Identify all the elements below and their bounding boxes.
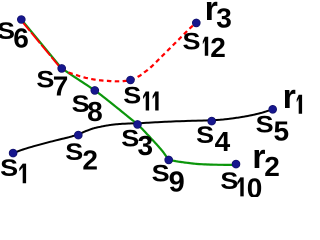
svg-text:0: 0 <box>247 172 263 197</box>
label S2 <box>65 139 98 175</box>
label S5 <box>256 112 289 147</box>
svg-text:S: S <box>0 155 18 182</box>
node s8 <box>91 86 99 94</box>
trajectory r3: red dashed curve s7,s11,s12 <box>62 23 197 81</box>
label S11 <box>123 82 158 110</box>
svg-text:S: S <box>123 82 141 109</box>
node s1 <box>9 149 17 157</box>
svg-text:S: S <box>36 66 54 93</box>
svg-text:2: 2 <box>264 151 280 182</box>
label S12 <box>183 28 226 62</box>
svg-text:S: S <box>183 28 201 55</box>
trajectory r2: green curve s7,s8,s3,s9,s10 <box>62 68 236 164</box>
svg-text:2: 2 <box>82 144 98 175</box>
node s10 <box>232 160 240 168</box>
node s12 <box>192 19 200 27</box>
label S7 <box>36 66 68 101</box>
svg-text:S: S <box>220 168 238 195</box>
svg-text:2: 2 <box>210 32 226 63</box>
svg-text:4: 4 <box>215 126 231 157</box>
svg-text:S: S <box>196 122 214 149</box>
label r2 <box>252 138 280 182</box>
svg-text:3: 3 <box>216 3 232 34</box>
svg-text:r: r <box>283 78 296 116</box>
svg-text:3: 3 <box>138 130 154 161</box>
node s9 <box>165 156 173 164</box>
trajectory r2: green straight segment s6 to s7 <box>21 20 61 69</box>
svg-text:8: 8 <box>87 96 103 127</box>
svg-text:S: S <box>152 161 170 188</box>
label S8 <box>72 91 103 127</box>
svg-text:9: 9 <box>169 167 185 198</box>
trajectory r3: red line s6 to s7 running parallel just below green <box>21 20 61 69</box>
label r1 <box>283 78 303 116</box>
trajectory r1: black curve through s1,s2,s3,s4,s5 <box>13 109 273 153</box>
svg-text:S: S <box>65 139 83 166</box>
svg-text:7: 7 <box>53 71 69 102</box>
node s6 <box>17 16 25 24</box>
node s2 <box>74 131 82 139</box>
node s3 <box>134 120 142 128</box>
label S9 <box>152 161 185 199</box>
svg-text:S: S <box>256 112 274 139</box>
node s11 <box>127 76 135 84</box>
svg-text:5: 5 <box>274 116 290 147</box>
label S4 <box>196 122 230 157</box>
node s4 <box>208 117 216 125</box>
label S10 <box>220 168 262 203</box>
label S1 <box>0 155 26 183</box>
label S3 <box>121 125 153 160</box>
label r3 <box>205 0 232 34</box>
node s5 <box>269 105 277 113</box>
node s7 <box>58 64 66 72</box>
label S6 <box>0 18 29 53</box>
svg-text:6: 6 <box>13 23 29 54</box>
